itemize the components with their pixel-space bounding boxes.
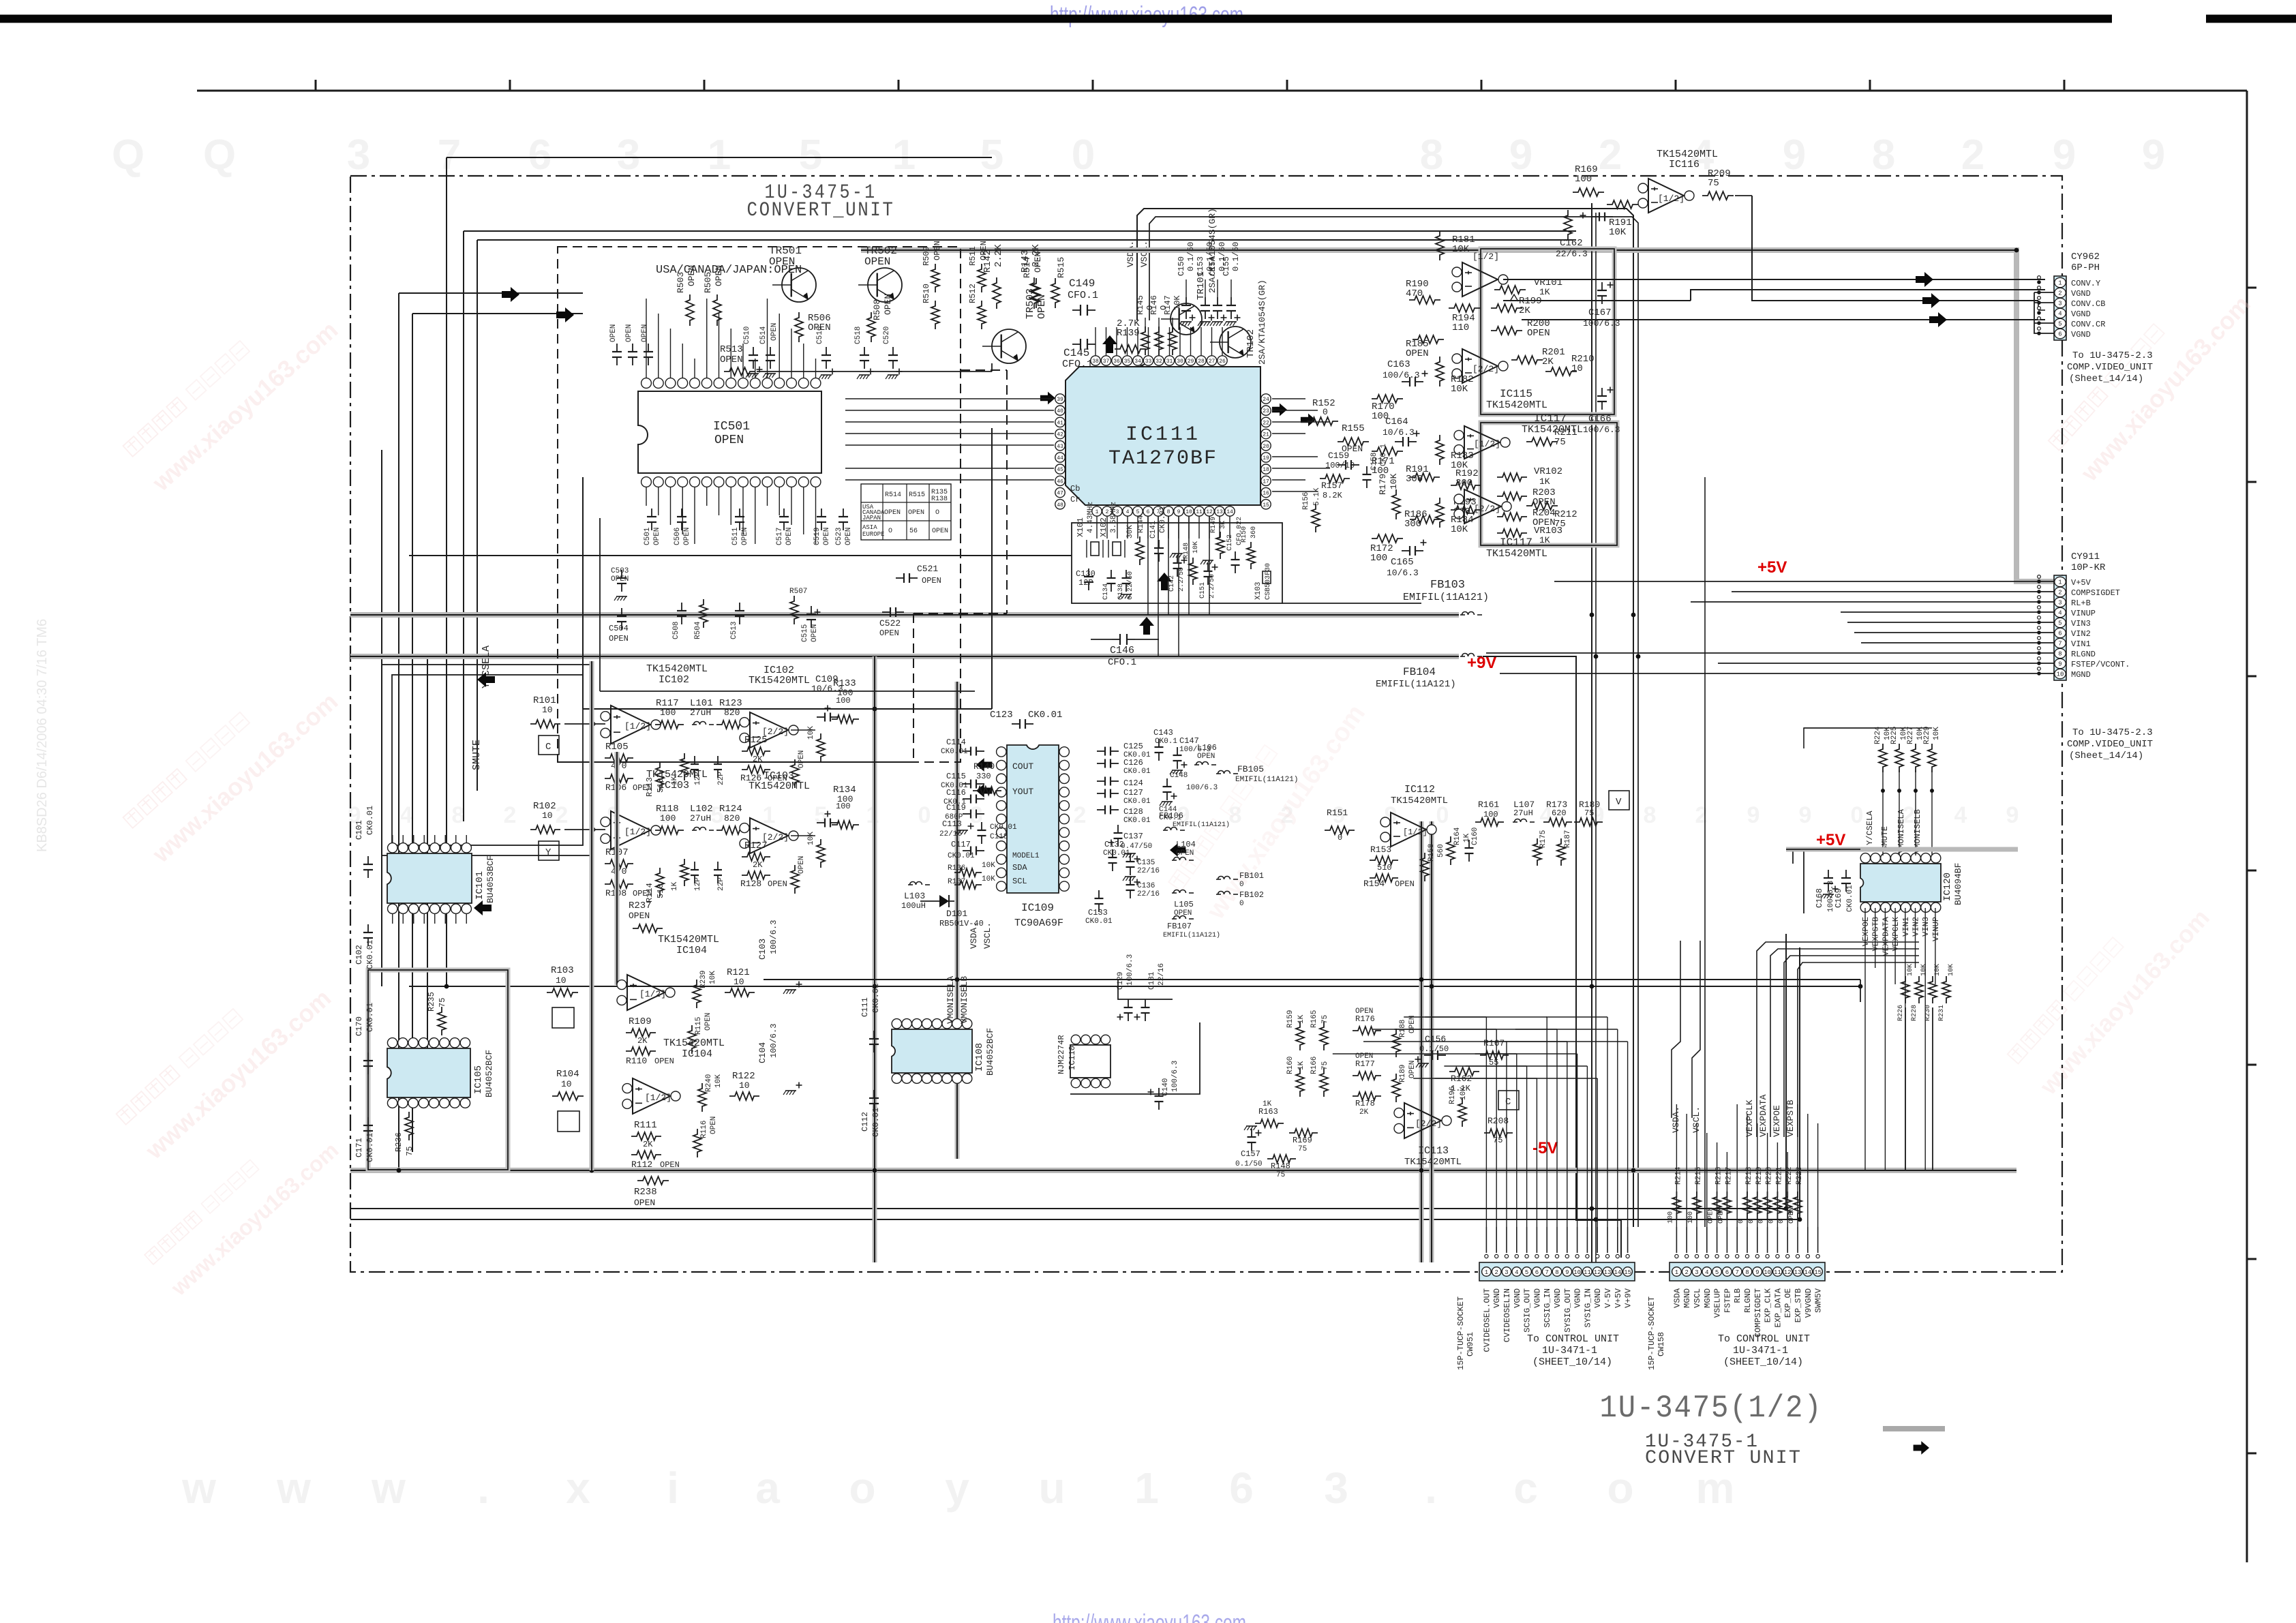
svg-text:IC108: IC108 (974, 1043, 985, 1072)
svg-text:2: 2 (1599, 132, 1622, 179)
opamp cluster IC102 (530, 720, 560, 728)
svg-text:C506: C506 (674, 528, 682, 545)
transistor TR503 (992, 329, 1026, 363)
svg-text:NJM2274R: NJM2274R (1057, 1035, 1066, 1074)
svg-text:OPEN: OPEN (634, 1198, 655, 1208)
svg-text:CK0.01: CK0.01 (1846, 885, 1854, 912)
svg-text:C113: C113 (942, 819, 962, 829)
labels below IC120 (1861, 916, 1941, 956)
svg-text:10: 10 (556, 975, 567, 986)
resistor R203 OPEN (1497, 492, 1527, 500)
svg-text:9: 9 (1565, 1269, 1569, 1276)
svg-text:R514: R514 (885, 491, 901, 499)
page top bar right segment (2206, 15, 2296, 23)
svg-text:C104: C104 (757, 1042, 768, 1063)
svg-text:6P-PH: 6P-PH (2071, 262, 2100, 273)
svg-text:1K: 1K (1539, 535, 1550, 545)
svg-text:10: 10 (1764, 1269, 1771, 1276)
page top bar left segment (0, 15, 2112, 23)
capacitor C140 100/6.3 (1158, 1088, 1160, 1096)
svg-text:TK15420MTL: TK15420MTL (749, 675, 810, 686)
wire pullup rail (1804, 728, 1883, 748)
svg-text:27uH: 27uH (690, 708, 711, 718)
svg-text:CK0.01: CK0.01 (365, 806, 375, 835)
resistor R510 R512 group (931, 301, 939, 329)
resistor R200 OPEN (1491, 327, 1522, 335)
svg-text:22/6.3: 22/6.3 (1556, 249, 1588, 259)
faint digits top row (112, 132, 2165, 179)
svg-text:75: 75 (1554, 519, 1566, 530)
svg-text:OPEN: OPEN (922, 576, 941, 586)
svg-text:560: 560 (1437, 844, 1445, 858)
svg-text:75: 75 (1554, 437, 1566, 448)
svg-text:1: 1 (2058, 280, 2061, 287)
resistor R148b 75 (1267, 1155, 1296, 1163)
svg-text:R139: R139 (1117, 328, 1140, 339)
svg-text:10: 10 (561, 1079, 572, 1089)
svg-text:OPEN: OPEN (1355, 1007, 1373, 1016)
svg-text:OPEN: OPEN (1408, 1016, 1417, 1033)
svg-text:C134: C134 (1102, 583, 1110, 600)
svg-text:EXP_OE: EXP_OE (1783, 1288, 1793, 1318)
arrow CONV.CB to CY962 (1922, 293, 1940, 308)
wire long horizontal mid sheet (409, 986, 1860, 987)
ic IC105 BU4052BCF (387, 1048, 470, 1097)
svg-text:10K: 10K (1173, 295, 1182, 310)
capacitor C118 CK0.01 (981, 822, 982, 830)
svg-text:OPEN: OPEN (879, 628, 899, 638)
resistor R155 OPEN (1338, 438, 1369, 446)
svg-text:100: 100 (1370, 553, 1387, 564)
gray bus +9V upper (350, 612, 1459, 618)
arrow up below IC111 A (1157, 573, 1172, 590)
svg-text:C154: C154 (1208, 256, 1218, 276)
svg-text:4.43MHz: 4.43MHz (1087, 502, 1095, 533)
svg-text:OPEN: OPEN (845, 528, 853, 545)
svg-text:0: 0 (1338, 833, 1342, 843)
connector CW951 15P-TUCP-SOCKET (1479, 1262, 1635, 1281)
svg-text:C150: C150 (1177, 256, 1186, 276)
resistor R164 1K (1447, 836, 1455, 865)
svg-text:CONV.CB: CONV.CB (2071, 299, 2105, 309)
svg-text:KB8SD26 D6/14/2006 04:30 7/16: KB8SD26 D6/14/2006 04:30 7/16 TM6 (35, 619, 50, 852)
svg-text:R511: R511 (968, 246, 978, 266)
svg-text:.: . (1425, 1463, 1437, 1513)
svg-text:22P: 22P (717, 772, 725, 785)
svg-text:2.2K: 2.2K (1031, 244, 1042, 267)
svg-text:OPEN: OPEN (770, 323, 779, 341)
resistor R180 75 (1574, 818, 1603, 826)
svg-text:23: 23 (1263, 408, 1269, 414)
capacitor C142 2.2/50 (1177, 555, 1178, 563)
label C box bottom (1498, 1091, 1519, 1110)
resistor R509 R511 group (931, 264, 939, 292)
svg-text:(Sheet_14/14): (Sheet_14/14) (2069, 374, 2143, 384)
svg-text:IC103: IC103 (659, 780, 689, 791)
svg-text:11: 11 (1196, 509, 1203, 515)
svg-text:V+9V: V+9V (1624, 1288, 1633, 1308)
svg-text:35: 35 (1124, 359, 1131, 365)
wire left tall vertical 2 (412, 314, 413, 1152)
arrow out IC111 pin22 (1272, 404, 1287, 416)
wire vertical pair right of center (1591, 203, 1592, 1262)
svg-text:FB106: FB106 (1159, 811, 1183, 821)
watermark stamp bottom left (142, 1112, 343, 1301)
svg-text:TK15420MTL: TK15420MTL (1657, 149, 1718, 160)
svg-text:IC105: IC105 (473, 1065, 484, 1094)
svg-text:27uH: 27uH (690, 813, 711, 823)
svg-text:C522: C522 (879, 618, 901, 628)
capacitor C163 100/6.3 (1402, 381, 1410, 382)
svg-text:R150: R150 (1241, 526, 1248, 543)
resistor R173 620 (1543, 818, 1572, 826)
svg-text:C155: C155 (1222, 256, 1231, 276)
svg-text:0.22/50: 0.22/50 (1126, 571, 1134, 600)
svg-text:R225: R225 (1890, 727, 1899, 744)
svg-text:100/10: 100/10 (1325, 461, 1355, 470)
svg-text:TK15420MTL: TK15420MTL (658, 934, 719, 945)
capacitor C135 22/16 (1130, 853, 1131, 862)
arrow out IC111 pin21 (1301, 414, 1316, 427)
svg-text:12: 12 (1206, 509, 1213, 515)
capacitor C159 100/10 (1338, 464, 1346, 466)
svg-text:EMIFIL(11A121): EMIFIL(11A121) (1235, 776, 1298, 784)
opamp IC115 first half (1462, 262, 1498, 297)
wire risers CW951 (1333, 1017, 1628, 1227)
svg-text:m: m (1696, 1463, 1735, 1513)
svg-text:C163: C163 (1387, 359, 1410, 370)
svg-text:C127: C127 (1123, 788, 1143, 798)
svg-text:[1/2]: [1/2] (624, 827, 651, 837)
svg-text:C518: C518 (854, 327, 862, 344)
svg-text:VGND: VGND (2071, 330, 2091, 339)
svg-text:MGND: MGND (2071, 670, 2091, 680)
svg-text:4: 4 (1515, 1269, 1518, 1276)
svg-text:1: 1 (1134, 1463, 1159, 1513)
resistor R212 75 (1526, 502, 1558, 510)
svg-text:R223: R223 (1796, 1167, 1804, 1185)
svg-text:R177: R177 (1355, 1059, 1375, 1069)
svg-text:VEXPSTB: VEXPSTB (1871, 917, 1881, 951)
svg-text:1K: 1K (1539, 287, 1550, 297)
svg-text:15: 15 (1624, 1269, 1631, 1276)
capacitor C149 CFO.1 (1072, 309, 1081, 311)
svg-text:VGND: VGND (1573, 1288, 1583, 1308)
option module inner dashed stub (961, 369, 1007, 371)
ic IC501 body (638, 391, 821, 473)
svg-text:10/6.3: 10/6.3 (1387, 568, 1419, 578)
footer arrow (1914, 1441, 1929, 1455)
svg-text:IC101: IC101 (474, 871, 485, 900)
svg-text:R105: R105 (605, 742, 629, 753)
svg-text:R112: R112 (631, 1159, 652, 1170)
svg-text:0: 0 (1323, 407, 1328, 417)
svg-text:CONVERT UNIT: CONVERT UNIT (1645, 1448, 1802, 1469)
arrow into option box upper (502, 287, 519, 302)
svg-text:5: 5 (2058, 620, 2061, 627)
svg-text:10K: 10K (982, 862, 995, 870)
gray box around IC115 cluster (1481, 249, 1614, 414)
svg-text:C503: C503 (611, 567, 629, 575)
svg-text:2: 2 (1494, 1269, 1498, 1276)
svg-text:OPEN: OPEN (609, 324, 618, 342)
svg-text:BU4052BCF: BU4052BCF (484, 1050, 494, 1097)
resistor R505 (713, 294, 721, 326)
svg-text:R515: R515 (909, 491, 925, 499)
svg-text:TK15420MTL: TK15420MTL (663, 1037, 725, 1049)
svg-text:CK0.1: CK0.1 (1380, 444, 1388, 466)
svg-text:8: 8 (2058, 651, 2061, 658)
resistor R193 300 (1451, 506, 1481, 514)
wire top gray underlay black (861, 249, 2014, 251)
svg-text:COUT: COUT (1012, 761, 1033, 772)
svg-text:C515: C515 (801, 624, 809, 642)
svg-text:R503: R503 (676, 272, 686, 293)
svg-text:10K: 10K (807, 726, 815, 740)
watermark stamp left upper (121, 288, 344, 497)
arrow up below IC111 B (1139, 617, 1154, 635)
svg-text:R103: R103 (551, 965, 574, 976)
svg-text:10K: 10K (1948, 964, 1955, 976)
svg-text:R226: R226 (1897, 1005, 1905, 1021)
svg-text:0: 0 (1758, 1219, 1766, 1224)
svg-text:C158: C158 (1370, 453, 1378, 470)
resistor R235 75 (438, 1007, 446, 1035)
svg-text:1K: 1K (671, 881, 679, 891)
connector CY911 stub circles (2037, 575, 2041, 676)
svg-text:R147: R147 (1163, 295, 1173, 315)
svg-text:75: 75 (405, 1147, 414, 1156)
svg-text:IC501: IC501 (713, 420, 750, 434)
arrow left COUT (976, 758, 992, 772)
svg-text:9: 9 (2142, 132, 2165, 179)
svg-text:OPEN: OPEN (625, 324, 633, 342)
svg-text:TK15420MTL: TK15420MTL (749, 780, 810, 792)
svg-text:c: c (1513, 1463, 1538, 1513)
ic IC110 NJM2274R (1070, 1045, 1111, 1078)
capacitor C123 CK0.01 (1012, 723, 1020, 725)
svg-text:15: 15 (1263, 502, 1269, 509)
ic IC109 TC90A69F body (1007, 745, 1059, 893)
svg-text:2: 2 (2058, 290, 2061, 297)
svg-text:CK0.01: CK0.01 (1028, 710, 1062, 721)
svg-text:4: 4 (2058, 610, 2061, 617)
wire horizontal above bottom cluster (764, 979, 1860, 980)
svg-text:9: 9 (2053, 132, 2076, 179)
svg-text:VEXPSTB: VEXPSTB (1785, 1099, 1796, 1137)
svg-text:OPEN: OPEN (741, 528, 749, 545)
svg-text:2: 2 (556, 802, 569, 828)
capacitor C111 CK0.01 (873, 1031, 875, 1039)
svg-text:R239: R239 (699, 971, 708, 988)
svg-text:16: 16 (1263, 491, 1269, 497)
svg-text:15P-TUCP-SOCKET: 15P-TUCP-SOCKET (1647, 1296, 1657, 1370)
svg-text:CY962: CY962 (2071, 252, 2100, 262)
connector CW158 rotated pin labels (1672, 1288, 1823, 1337)
svg-text:R116: R116 (700, 1121, 708, 1138)
svg-text:VSCL: VSCL (1693, 1288, 1702, 1308)
svg-text:13: 13 (1604, 1269, 1612, 1276)
ic IC111 pins bottom (1092, 506, 1235, 539)
svg-text:10: 10 (734, 977, 744, 987)
svg-text:1K: 1K (1263, 1100, 1272, 1108)
ferrite FB105 EMIFIL (1216, 773, 1221, 774)
svg-text:R214: R214 (1674, 1166, 1682, 1185)
svg-text:47: 47 (1057, 491, 1063, 497)
svg-text:R149: R149 (1210, 517, 1218, 533)
wire left tall vertical 4 (381, 450, 382, 986)
svg-text:9: 9 (1783, 132, 1806, 179)
svg-text:VIN2: VIN2 (2071, 629, 2091, 639)
svg-text:2: 2 (1685, 1269, 1688, 1276)
svg-text:OPEN: OPEN (883, 294, 893, 315)
svg-text:R237: R237 (629, 900, 652, 911)
connector CY962 pin labels (2071, 279, 2105, 339)
svg-text:VMONISELA: VMONISELA (1897, 808, 1906, 853)
resistor R122 10 (729, 1092, 759, 1100)
svg-text:SCSIG_OUT: SCSIG_OUT (1523, 1288, 1532, 1333)
svg-text:R163: R163 (1258, 1107, 1278, 1117)
svg-text:36: 36 (1113, 359, 1120, 365)
svg-text:1U-3475(1/2): 1U-3475(1/2) (1600, 1391, 1823, 1426)
svg-text:6: 6 (1725, 1269, 1729, 1276)
svg-text:CK0.01: CK0.01 (871, 984, 881, 1013)
svg-text:R153: R153 (1370, 845, 1391, 855)
resistor R515 (1051, 278, 1059, 308)
svg-text:6: 6 (2058, 331, 2061, 338)
resistor R201 2K (1511, 356, 1543, 364)
svg-text:1U-3471-1: 1U-3471-1 (1733, 1345, 1788, 1356)
wire CW158 upper bundle corner (1672, 941, 1680, 1118)
capacitor C113 22/16 (957, 830, 968, 831)
crystal X103 CSB503F30 (1263, 571, 1271, 583)
gray bus top +5V route (861, 250, 2054, 581)
resistor R238 OPEN (637, 1177, 669, 1185)
label R175 R187 (1533, 838, 1541, 866)
svg-text:CONVERT_UNIT: CONVERT_UNIT (747, 199, 895, 222)
resistor R148 10K (1189, 558, 1197, 585)
svg-text:C160: C160 (1471, 828, 1479, 845)
svg-text:0.1/50: 0.1/50 (1235, 1160, 1263, 1168)
svg-text:2K: 2K (753, 755, 763, 764)
svg-text:1K: 1K (1539, 476, 1550, 487)
svg-text:10: 10 (1185, 509, 1192, 515)
opamp IC113 (1404, 1103, 1441, 1138)
svg-text:C143: C143 (1153, 728, 1173, 738)
svg-text:9: 9 (1509, 132, 1532, 179)
svg-text:x: x (566, 1463, 590, 1513)
svg-text:C167: C167 (1588, 307, 1612, 318)
svg-text:OPEN: OPEN (714, 434, 744, 447)
svg-text:R219: R219 (1755, 1167, 1764, 1185)
svg-text:C162: C162 (1560, 238, 1583, 249)
svg-text:BU4094BF: BU4094BF (1953, 863, 1963, 905)
svg-text:X101: X101 (1076, 517, 1085, 537)
svg-text:i: i (667, 1463, 679, 1513)
svg-text:R224: R224 (1874, 726, 1882, 744)
svg-text:(Sheet_14/14): (Sheet_14/14) (2069, 750, 2143, 761)
resistor R181 10K (1436, 230, 1444, 260)
svg-text:C168: C168 (1815, 888, 1824, 908)
svg-text:C: C (545, 742, 551, 753)
convert unit dash-dot boundary box (350, 176, 2062, 1272)
wire vertical single mid right (1704, 477, 1706, 1227)
resistor R184 10K (1436, 498, 1444, 528)
svg-text:V-5V: V-5V (1603, 1288, 1613, 1308)
connector CY962 stub circles (2037, 276, 2041, 335)
svg-text:100/6.3: 100/6.3 (769, 1024, 779, 1058)
capacitor C125 C126 right of IC109 (1097, 750, 1105, 752)
svg-text:R229: R229 (1923, 727, 1931, 744)
svg-text:0: 0 (918, 802, 931, 828)
svg-text:C516: C516 (816, 327, 824, 344)
svg-text:RL+B: RL+B (2071, 598, 2091, 608)
svg-text:C130: C130 (1076, 569, 1096, 579)
inductor L104 OPEN (1172, 860, 1177, 861)
wire top rail B (477, 239, 1576, 241)
svg-text:21: 21 (1263, 432, 1269, 438)
capacitor C102 CK0.01 (367, 924, 369, 932)
svg-text:R137: R137 (948, 878, 965, 886)
svg-text:R215: R215 (1695, 1167, 1703, 1185)
resistor R169 100 (1573, 188, 1604, 196)
ic IC108 BU4052BCF (892, 1029, 972, 1073)
wire VEXP bundle going up (1757, 942, 1919, 1137)
svg-text:V+5V: V+5V (1614, 1288, 1623, 1308)
svg-text:40: 40 (1057, 408, 1063, 414)
transistor TR502 (868, 268, 902, 302)
svg-text:C136: C136 (1137, 882, 1155, 890)
capacitor C101 CK0.01 (367, 856, 369, 864)
svg-text:C146: C146 (1110, 645, 1134, 656)
svg-text:5: 5 (1136, 509, 1140, 515)
svg-text:VINUP: VINUP (1931, 917, 1941, 941)
svg-text:C114: C114 (946, 738, 966, 747)
svg-text:2: 2 (1074, 802, 1087, 828)
inductor L103 100uH (908, 884, 913, 885)
svg-text:R111: R111 (634, 1120, 657, 1131)
svg-text:Y/CSELA: Y/CSELA (1865, 810, 1875, 845)
svg-text:[1/2]: [1/2] (1658, 194, 1685, 204)
ic IC101 pin wires (393, 835, 467, 924)
svg-text:(SHEET_10/14): (SHEET_10/14) (1532, 1356, 1612, 1368)
resistor R210 10 (1545, 367, 1577, 376)
resistor R508 (867, 312, 875, 342)
svg-text:100: 100 (1687, 1211, 1695, 1224)
capacitor C157 0.1/50 (1251, 1129, 1252, 1137)
svg-text:C142: C142 (1168, 575, 1176, 592)
svg-text:1K: 1K (1297, 1061, 1305, 1070)
svg-text:0: 0 (1851, 802, 1864, 828)
svg-text:w: w (371, 1463, 406, 1513)
svg-text:C101: C101 (354, 820, 364, 840)
svg-text:C513: C513 (730, 622, 738, 639)
svg-text:7: 7 (438, 132, 461, 179)
svg-text:IC102: IC102 (659, 674, 689, 686)
svg-text:OPEN: OPEN (641, 324, 649, 342)
capacitor C131 22/16 (1145, 999, 1146, 1007)
capacitor C117 CK0.01 (963, 850, 971, 851)
svg-text:3K: 3K (1220, 521, 1227, 529)
capacitor C521 (896, 577, 904, 579)
svg-text:SYSIG_IN: SYSIG_IN (1583, 1288, 1592, 1328)
svg-text:RLB: RLB (1733, 1288, 1742, 1303)
svg-text:3: 3 (1505, 1269, 1508, 1276)
svg-text:C119: C119 (946, 803, 966, 813)
resistor R170 100 (1372, 395, 1403, 403)
resistor R237 OPEN (633, 924, 663, 932)
svg-text:3: 3 (617, 132, 640, 179)
